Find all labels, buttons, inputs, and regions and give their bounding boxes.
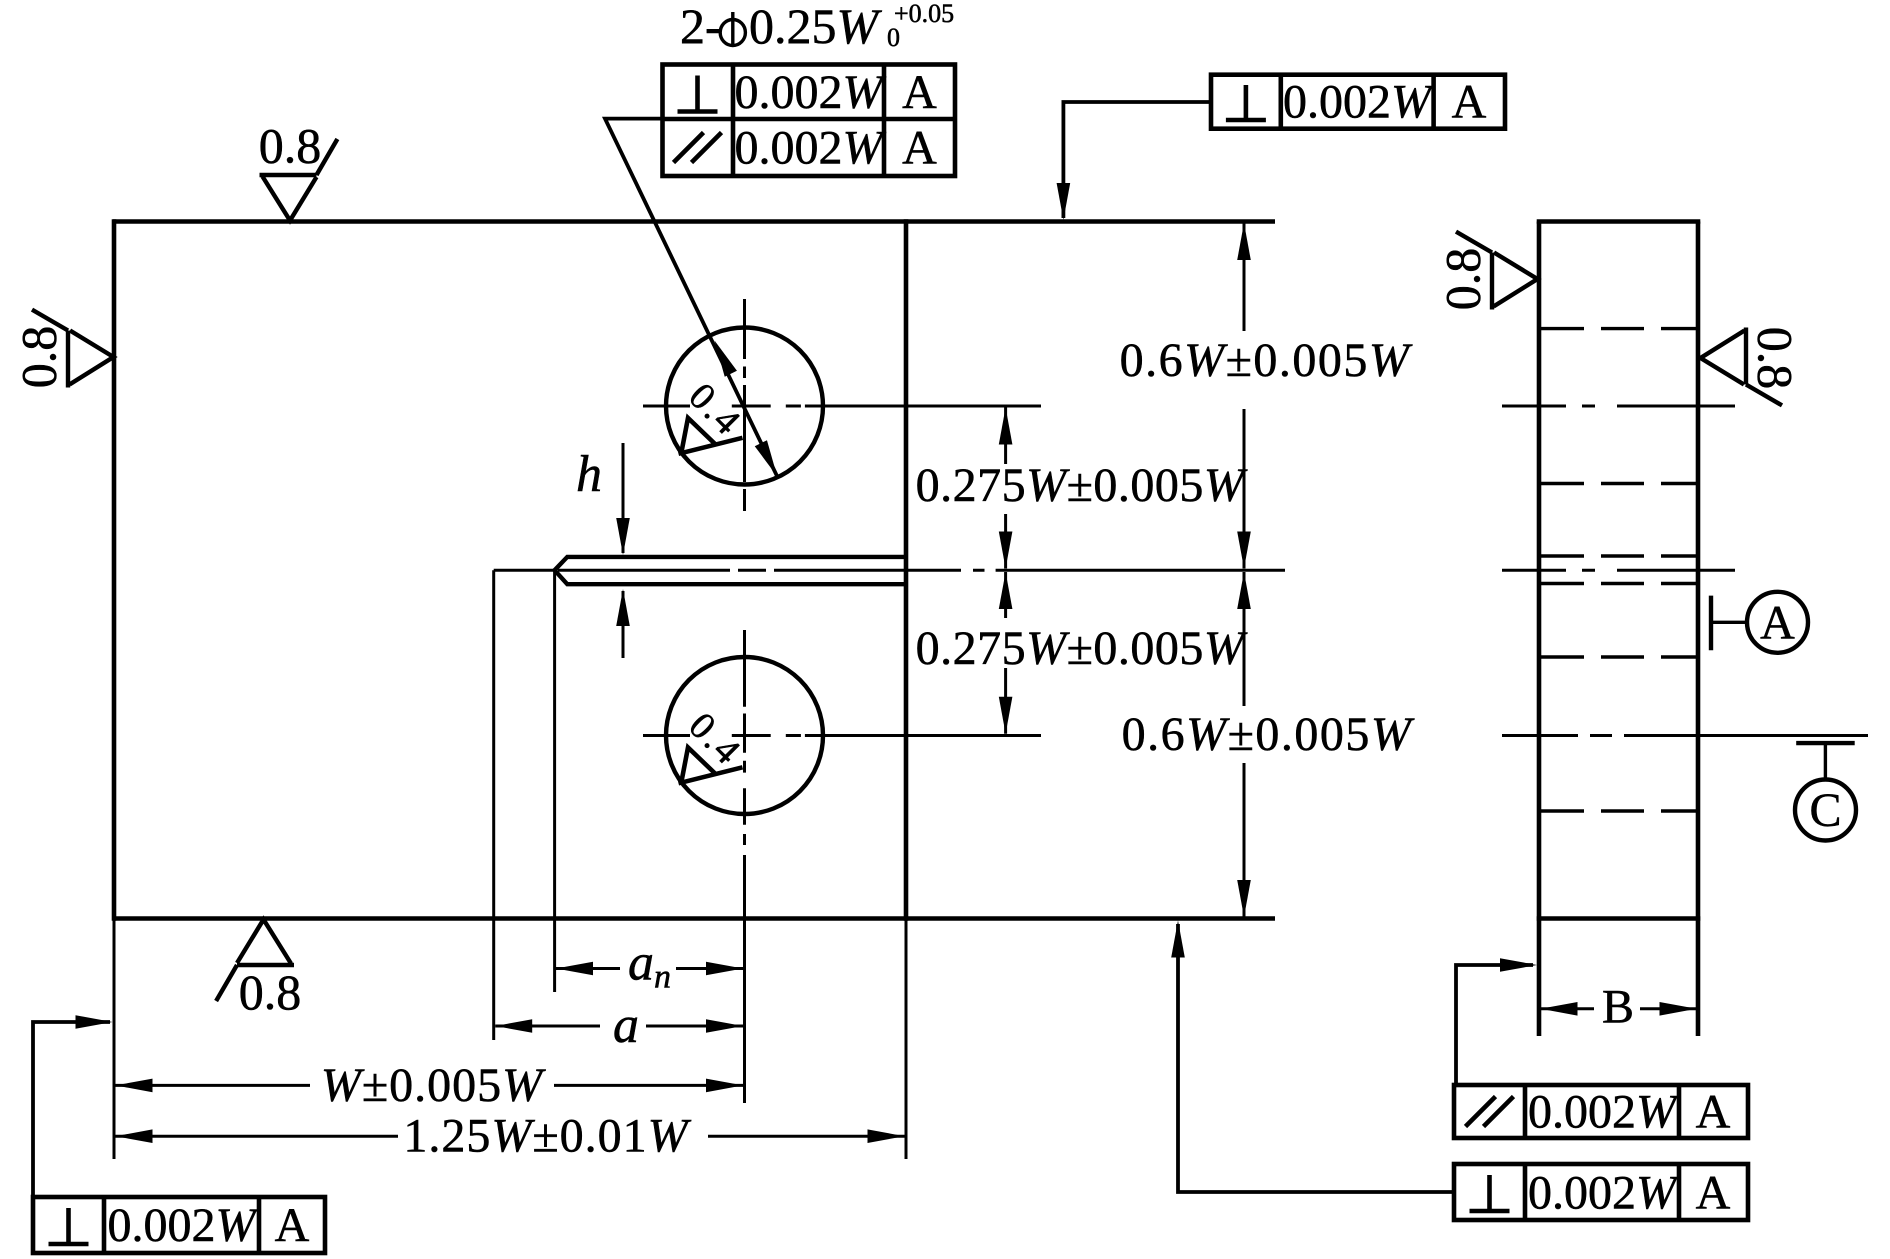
dimension a [495, 997, 743, 1054]
dimension 0.275W bottom [916, 572, 1248, 734]
dimension 0.6W top [1120, 223, 1413, 569]
svg-text:0.002W: 0.002W [1528, 1086, 1680, 1139]
svg-text:A: A [1696, 1167, 1731, 1220]
datum A symbol [1711, 592, 1808, 653]
notch centerline [558, 569, 1285, 572]
notch slot [555, 557, 906, 584]
feature control frame bottom-right parallel [1454, 1085, 1748, 1139]
bottom hole centerlines [643, 630, 1041, 845]
leader top-right frame [1057, 102, 1211, 220]
roughness symbol left edge [11, 310, 114, 389]
leader bottom-right perpendicular frame [1171, 921, 1454, 1193]
svg-text:A: A [902, 66, 937, 119]
dimension W [116, 1059, 744, 1112]
svg-text:h: h [576, 446, 602, 503]
dimension h [576, 443, 630, 658]
dimension 1.25W [116, 1110, 905, 1163]
svg-text:0.002W: 0.002W [735, 122, 887, 175]
top hole centerlines [643, 299, 1041, 511]
svg-text:A: A [1696, 1086, 1731, 1139]
svg-text:A: A [902, 122, 937, 175]
feature control frame top-right [1211, 75, 1505, 129]
svg-text:1.25W±0.01W: 1.25W±0.01W [403, 1110, 691, 1163]
hole diameter leader [605, 119, 783, 480]
datum C symbol [1795, 743, 1856, 840]
dimension 0.6W bottom [1122, 572, 1415, 917]
roughness symbol bottom hole bore [679, 705, 751, 784]
specimen front view outline [113, 219, 1275, 921]
svg-text:0.002W: 0.002W [1283, 76, 1435, 129]
roughness symbol top hole bore [679, 375, 751, 454]
svg-text:an: an [628, 935, 671, 996]
side view hidden lines [1541, 329, 1696, 811]
hole top circle [666, 328, 823, 485]
roughness symbol top edge [259, 118, 338, 221]
svg-text:0.275W±0.005W: 0.275W±0.005W [916, 622, 1248, 675]
svg-text:B: B [1602, 981, 1634, 1034]
extension line hole center [743, 855, 746, 1103]
dimension B [1541, 981, 1697, 1034]
side view centerlines [1502, 406, 1868, 736]
svg-text:0.002W: 0.002W [108, 1199, 260, 1252]
svg-text:0.25W: 0.25W [749, 0, 883, 54]
hole size label 2-phi0.25W [680, 0, 954, 54]
dimension 0.275W top [916, 408, 1248, 569]
svg-text:0.6W±0.005W: 0.6W±0.005W [1122, 708, 1415, 761]
crack line [494, 569, 555, 572]
extension line right edge [905, 919, 908, 1160]
svg-text:0.002W: 0.002W [1528, 1167, 1680, 1220]
feature control frame top-center [663, 65, 956, 177]
feature control frame bottom-left [33, 1197, 325, 1253]
svg-text:A: A [1760, 597, 1795, 650]
svg-text:2-: 2- [680, 0, 722, 54]
svg-text:0.002W: 0.002W [735, 66, 887, 119]
svg-text:0.6W±0.005W: 0.6W±0.005W [1120, 334, 1413, 387]
svg-text:0.8: 0.8 [239, 964, 302, 1020]
roughness symbol side view right [1701, 327, 1804, 406]
svg-text:0.275W±0.005W: 0.275W±0.005W [916, 459, 1248, 512]
svg-text:a: a [613, 997, 639, 1054]
side view outline [1537, 222, 1701, 1037]
hole bottom circle [666, 657, 823, 814]
svg-text:A: A [275, 1199, 310, 1252]
feature control frame bottom-right perpendicular [1454, 1164, 1748, 1220]
svg-text:+0.05: +0.05 [894, 0, 954, 28]
svg-text:A: A [1452, 76, 1487, 129]
leader bottom-left frame [33, 1015, 113, 1197]
leader bottom-right parallel frame [1456, 958, 1537, 1085]
roughness symbol side view left [1435, 232, 1538, 311]
extension line a [492, 570, 495, 1040]
svg-text:W±0.005W: W±0.005W [321, 1059, 546, 1112]
extension line an [553, 570, 556, 992]
roughness symbol bottom edge [216, 920, 301, 1021]
svg-text:C: C [1809, 784, 1841, 837]
extension line left edge [113, 919, 116, 1160]
dimension an [556, 935, 743, 996]
